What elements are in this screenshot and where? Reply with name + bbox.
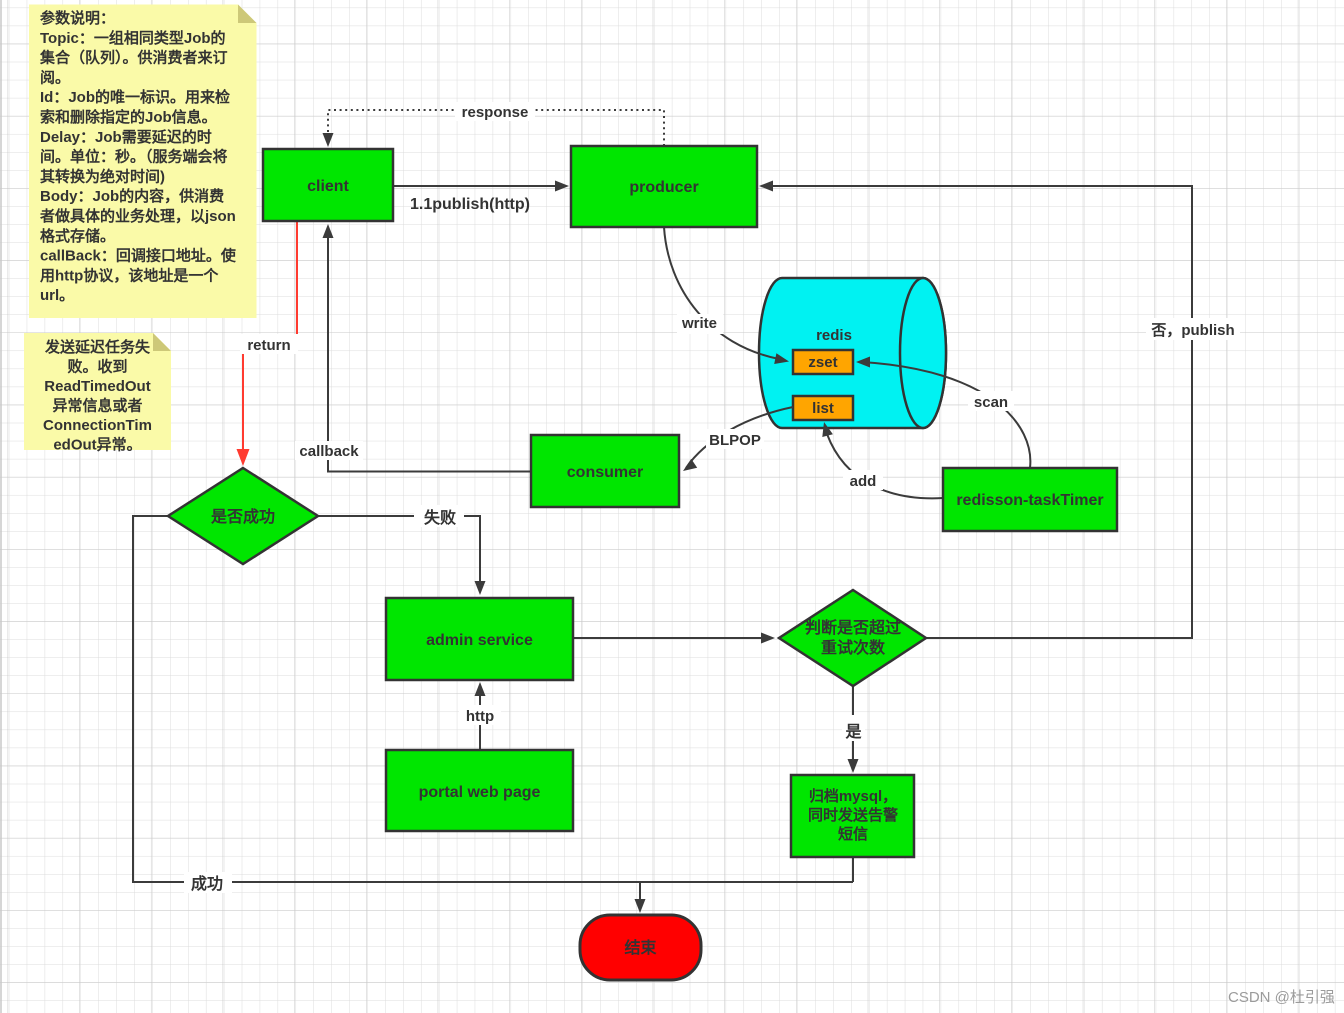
svg-text:callback: callback <box>299 443 359 460</box>
node redisson-taskTimer <box>943 468 1117 531</box>
wire: 是 diamond2->mysql <box>842 686 865 773</box>
wire: write producer->zset <box>664 227 789 364</box>
svg-text:是: 是 <box>844 723 861 741</box>
svg-text:http: http <box>466 708 494 725</box>
wire: red return client->diamond <box>237 222 299 466</box>
wire: 失败 diamond1->admin <box>318 505 486 595</box>
svg-text:Delay：Job需要延迟的时: Delay：Job需要延迟的时 <box>40 128 212 146</box>
svg-text:portal web page: portal web page <box>419 784 541 801</box>
wire: 1.1publish(http) client->producer <box>393 181 569 214</box>
svg-text:scan: scan <box>974 394 1008 411</box>
wire: 否publish diamond2->producer <box>759 181 1240 639</box>
svg-text:失败: 失败 <box>424 508 456 527</box>
svg-text:Body：Job的内容，供消费: Body：Job的内容，供消费 <box>40 187 224 205</box>
svg-text:短信: 短信 <box>838 825 868 843</box>
decision 判断是否超过重试次数 <box>779 590 926 686</box>
svg-text:edOut异常。: edOut异常。 <box>53 436 141 454</box>
wire: callback consumer->client <box>295 224 531 472</box>
svg-text:BLPOP: BLPOP <box>709 432 761 449</box>
node producer <box>571 146 757 227</box>
cylinder redis <box>759 278 946 428</box>
svg-text:producer: producer <box>629 179 698 196</box>
svg-text:CSDN @杜引强: CSDN @杜引强 <box>1228 989 1335 1006</box>
terminator 结束 <box>580 915 701 980</box>
svg-text:zset: zset <box>808 354 837 371</box>
svg-text:集合（队列）。供消费者来订: 集合（队列）。供消费者来订 <box>39 49 228 67</box>
node 归档mysql <box>791 775 914 857</box>
svg-text:重试次数: 重试次数 <box>821 638 886 657</box>
wire: http portal->admin <box>459 682 501 750</box>
svg-text:ConnectionTim: ConnectionTim <box>43 417 152 434</box>
svg-text:判断是否超过: 判断是否超过 <box>805 618 901 637</box>
svg-text:同时发送告警: 同时发送告警 <box>808 806 898 824</box>
svg-text:索和删除指定的Job信息。: 索和删除指定的Job信息。 <box>40 108 217 126</box>
svg-text:其转换为绝对时间): 其转换为绝对时间) <box>40 167 165 185</box>
svg-text:者做具体的业务处理，以json: 者做具体的业务处理，以json <box>40 207 236 225</box>
svg-text:败。收到: 败。收到 <box>67 358 127 376</box>
svg-text:consumer: consumer <box>567 464 643 481</box>
svg-text:list: list <box>812 400 834 417</box>
node list <box>793 396 853 420</box>
svg-text:url。: url。 <box>40 287 74 304</box>
svg-text:write: write <box>681 315 717 332</box>
node portal web page <box>386 750 573 831</box>
wire: response dotted polyline producer->client <box>323 102 665 147</box>
svg-text:阅。: 阅。 <box>40 68 70 86</box>
node client <box>263 149 393 221</box>
wire: BLPOP list->consumer <box>683 407 793 471</box>
svg-text:发送延迟任务失: 发送延迟任务失 <box>44 338 151 356</box>
svg-text:response: response <box>462 104 529 121</box>
svg-text:redisson-taskTimer: redisson-taskTimer <box>956 492 1103 509</box>
svg-text:格式存储。: 格式存储。 <box>40 227 115 245</box>
svg-text:否，publish: 否，publish <box>1150 322 1234 339</box>
svg-text:Id：Job的唯一标识。用来检: Id：Job的唯一标识。用来检 <box>40 88 230 106</box>
svg-text:成功: 成功 <box>191 874 223 893</box>
svg-text:结束: 结束 <box>623 938 657 957</box>
wire: scan redisson->zset <box>856 357 1030 469</box>
svg-text:redis: redis <box>816 327 852 344</box>
svg-text:间。单位：秒。（服务端会将: 间。单位：秒。（服务端会将 <box>40 148 228 166</box>
note: 参数说明 sticky <box>29 5 257 319</box>
wire: admin->diamond2 <box>573 633 775 644</box>
node admin service <box>386 598 573 680</box>
svg-text:1.1publish(http): 1.1publish(http) <box>410 196 530 213</box>
wire: 成功 merge to end <box>133 516 853 913</box>
node zset <box>793 350 853 374</box>
svg-text:admin service: admin service <box>426 632 533 649</box>
node consumer <box>531 435 679 507</box>
svg-text:return: return <box>247 337 290 354</box>
svg-text:Topic：一组相同类型Job的: Topic：一组相同类型Job的 <box>40 29 226 47</box>
svg-text:归档mysql，: 归档mysql， <box>809 787 897 805</box>
svg-text:add: add <box>850 473 877 490</box>
svg-text:用http协议，该地址是一个: 用http协议，该地址是一个 <box>40 266 219 284</box>
svg-text:参数说明：: 参数说明： <box>40 9 115 27</box>
decision 是否成功 <box>168 468 318 564</box>
svg-text:callBack：回调接口地址。使: callBack：回调接口地址。使 <box>40 247 237 265</box>
wire: add redisson->list <box>822 422 943 498</box>
svg-text:client: client <box>307 178 349 195</box>
svg-text:是否成功: 是否成功 <box>210 507 275 526</box>
note: 发送延迟任务失败 sticky <box>24 333 171 454</box>
svg-text:异常信息或者: 异常信息或者 <box>52 397 142 415</box>
svg-text:ReadTimedOut: ReadTimedOut <box>44 378 150 395</box>
